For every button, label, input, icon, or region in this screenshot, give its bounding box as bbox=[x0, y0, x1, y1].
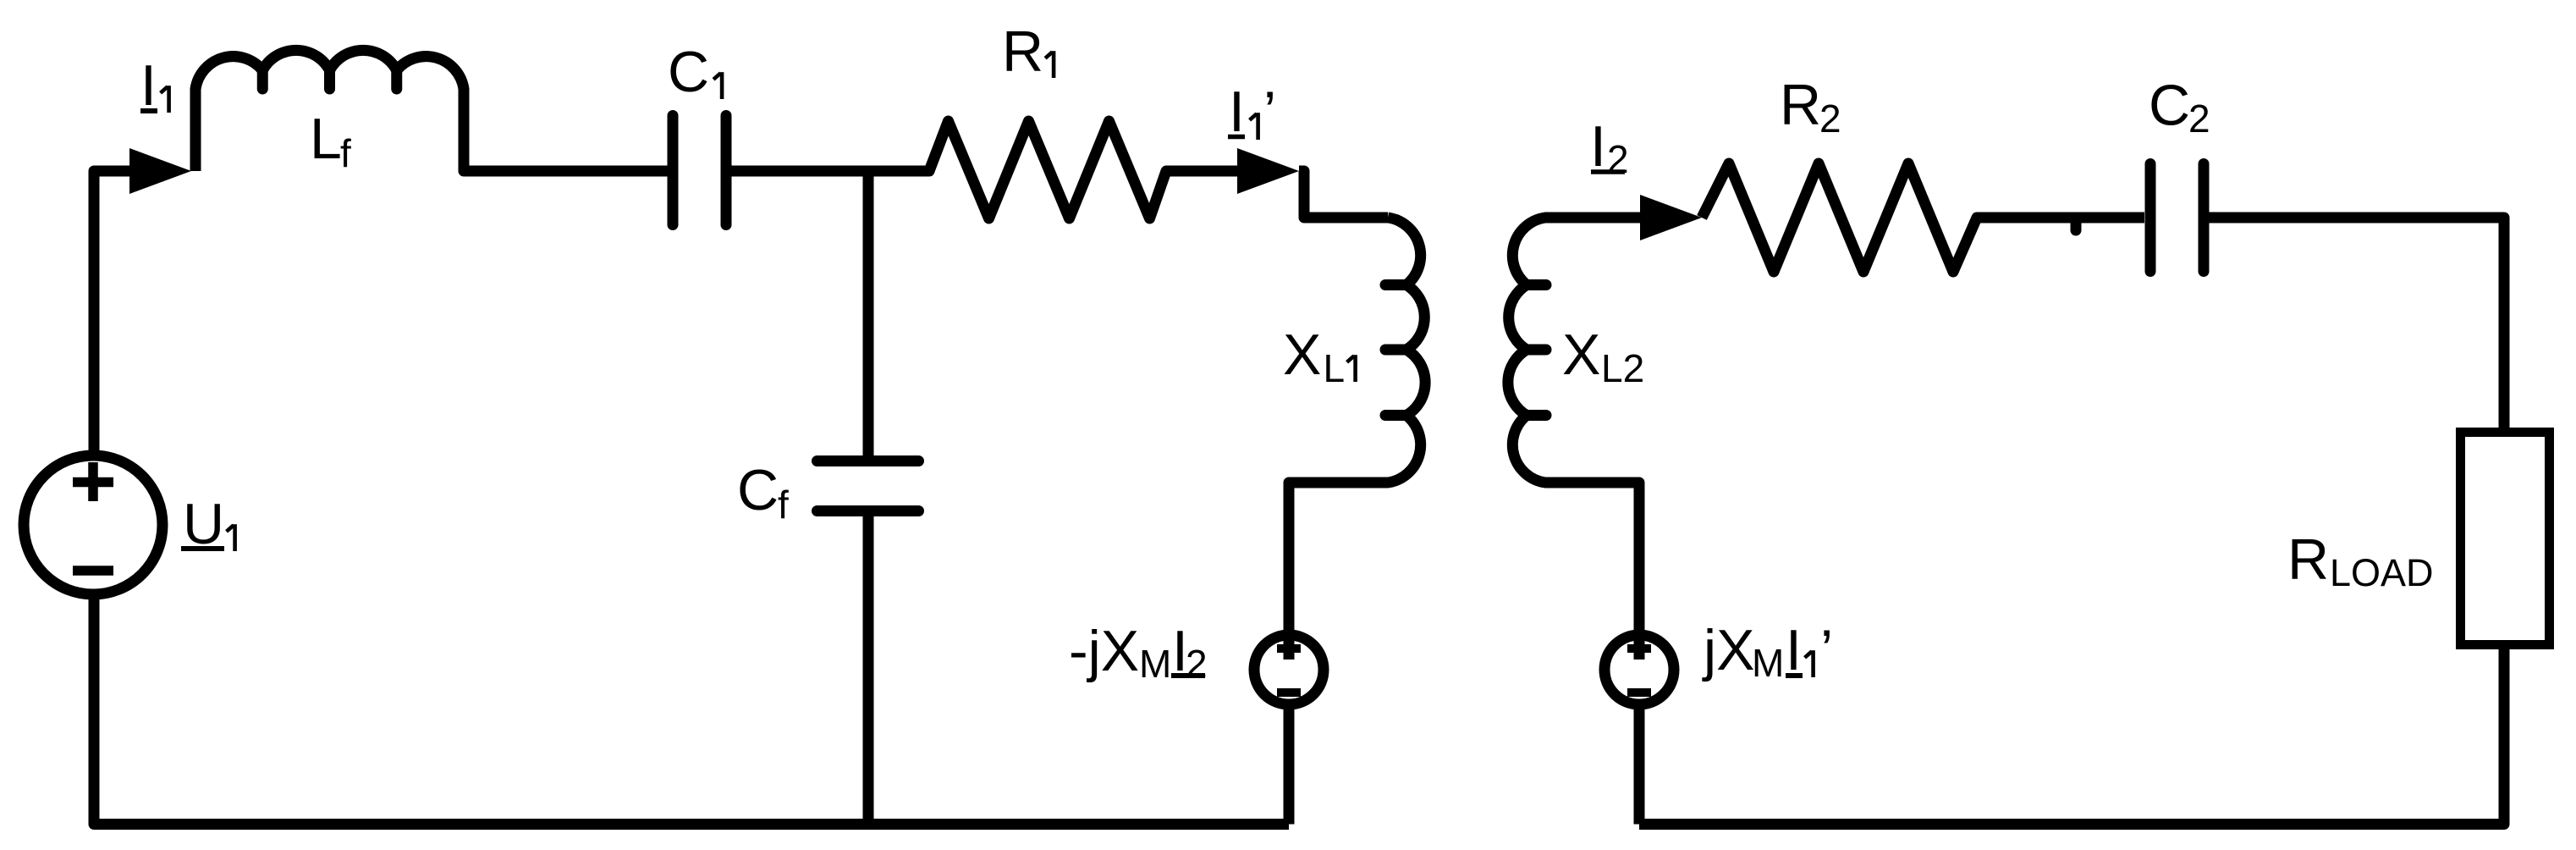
svg-text:C: C bbox=[668, 40, 709, 104]
svg-text:2: 2 bbox=[1819, 97, 1841, 141]
svg-text:2: 2 bbox=[1607, 137, 1629, 181]
svg-text:jX: jX bbox=[1702, 618, 1754, 682]
svg-text:X: X bbox=[1562, 323, 1600, 387]
svg-text:f: f bbox=[778, 483, 789, 527]
svg-text:I: I bbox=[1786, 618, 1802, 682]
svg-text:R: R bbox=[2287, 527, 2329, 592]
svg-text:X: X bbox=[1283, 323, 1321, 387]
svg-text:C: C bbox=[737, 458, 779, 522]
svg-text:LOAD: LOAD bbox=[2330, 551, 2434, 594]
svg-text:-jX: -jX bbox=[1069, 619, 1139, 683]
svg-text:L: L bbox=[310, 107, 342, 171]
svg-text:R: R bbox=[1002, 19, 1043, 84]
svg-text:C: C bbox=[2149, 74, 2190, 138]
svg-text:I: I bbox=[1229, 80, 1245, 144]
svg-text:’: ’ bbox=[1263, 80, 1276, 144]
svg-text:I: I bbox=[140, 53, 157, 118]
svg-text:R: R bbox=[1780, 73, 1821, 137]
svg-text:L2: L2 bbox=[1601, 346, 1644, 390]
svg-text:L: L bbox=[1324, 346, 1346, 390]
svg-text:2: 2 bbox=[2188, 97, 2210, 141]
svg-text:M: M bbox=[1139, 642, 1171, 686]
svg-text:’: ’ bbox=[1820, 618, 1833, 682]
svg-text:f: f bbox=[340, 131, 351, 175]
svg-text:2: 2 bbox=[1186, 642, 1208, 686]
svg-text:M: M bbox=[1752, 641, 1784, 685]
svg-text:I: I bbox=[1590, 114, 1606, 179]
